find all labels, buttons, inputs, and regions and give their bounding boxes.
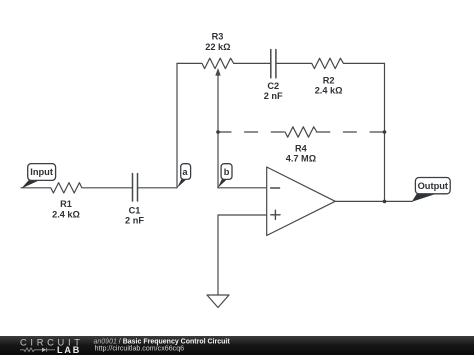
svg-text:2 nF: 2 nF <box>264 91 283 101</box>
svg-text:2.4 kΩ: 2.4 kΩ <box>315 85 343 95</box>
svg-text:Output: Output <box>418 181 448 191</box>
svg-text:C1: C1 <box>129 205 141 215</box>
svg-text:2.4 kΩ: 2.4 kΩ <box>52 210 80 220</box>
svg-text:R1: R1 <box>60 199 72 209</box>
svg-text:R2: R2 <box>323 76 335 86</box>
svg-text:C2: C2 <box>267 81 279 91</box>
svg-text:b: b <box>224 167 230 177</box>
svg-text:4.7 MΩ: 4.7 MΩ <box>286 154 316 164</box>
svg-text:Input: Input <box>30 167 53 177</box>
svg-text:R4: R4 <box>295 144 308 154</box>
svg-text:http://circuitlab.com/cx66cq6: http://circuitlab.com/cx66cq6 <box>95 345 185 353</box>
svg-text:a: a <box>182 167 188 177</box>
svg-text:R3: R3 <box>212 32 224 42</box>
svg-text:2 nF: 2 nF <box>125 216 144 226</box>
svg-text:22 kΩ: 22 kΩ <box>205 42 230 52</box>
svg-text:LAB: LAB <box>57 345 81 355</box>
